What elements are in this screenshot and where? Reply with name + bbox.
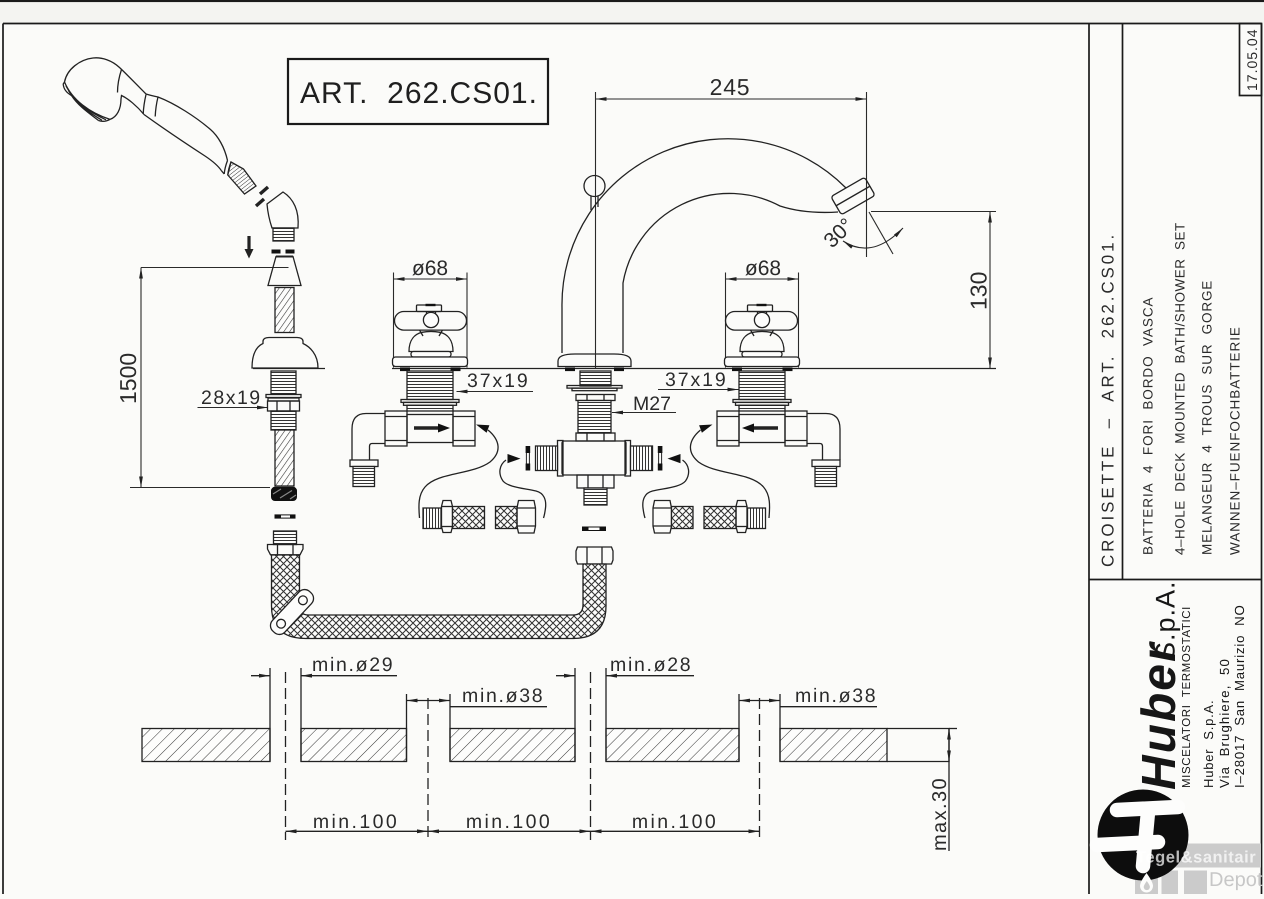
svg-text:17.05.04: 17.05.04 <box>1244 29 1260 92</box>
svg-text:min.100: min.100 <box>313 811 399 833</box>
svg-text:min.ø29: min.ø29 <box>312 654 394 676</box>
svg-text:4–HOLE DECK MOUNTED BATH/SH: 4–HOLE DECK MOUNTED BATH/SHOWER SET <box>1173 222 1188 555</box>
svg-text:ø68: ø68 <box>412 257 448 280</box>
svg-text:min.ø28: min.ø28 <box>610 654 692 676</box>
svg-text:ART. 262.CS01.: ART. 262.CS01. <box>300 77 538 110</box>
svg-text:min.100: min.100 <box>632 811 718 833</box>
svg-text:BATTERIA 4 FORI BORDO VASC: BATTERIA 4 FORI BORDO VASCA <box>1141 297 1156 556</box>
svg-text:S.p.A.: S.p.A. <box>1151 580 1181 660</box>
svg-text:28x19: 28x19 <box>201 387 262 409</box>
svg-text:245: 245 <box>710 74 751 100</box>
svg-text:WANNEN–FUENFOCHBATTERIE: WANNEN–FUENFOCHBATTERIE <box>1228 326 1243 555</box>
svg-text:1500: 1500 <box>115 353 141 404</box>
svg-text:CROISETTE – ART. 262.CS01.: CROISETTE – ART. 262.CS01. <box>1099 232 1118 567</box>
svg-text:130: 130 <box>966 272 992 310</box>
svg-text:min.ø38: min.ø38 <box>462 685 544 707</box>
svg-text:MISCELATORI TERMOSTATICI: MISCELATORI TERMOSTATICI <box>1181 606 1193 788</box>
svg-text:Huber S.p.A.: Huber S.p.A. <box>1201 700 1216 788</box>
svg-text:Tegel&sanitair: Tegel&sanitair <box>1136 849 1256 867</box>
svg-text:ø68: ø68 <box>745 257 781 280</box>
svg-text:MELANGEUR 4 TROUS SUR GORG: MELANGEUR 4 TROUS SUR GORGE <box>1200 280 1215 555</box>
svg-text:Huber: Huber <box>1133 641 1186 790</box>
svg-text:max.30: max.30 <box>929 777 951 851</box>
svg-text:37x19: 37x19 <box>467 370 530 392</box>
svg-text:min.ø38: min.ø38 <box>795 685 877 707</box>
svg-text:Depot: Depot <box>1209 869 1263 891</box>
svg-text:I–28017 San Maurizio NO: I–28017 San Maurizio NO <box>1232 604 1247 788</box>
svg-text:min.100: min.100 <box>466 811 552 833</box>
svg-text:M27: M27 <box>633 393 671 415</box>
svg-text:37x19: 37x19 <box>665 369 728 391</box>
svg-text:Via Brughiere, 50: Via Brughiere, 50 <box>1217 658 1232 788</box>
